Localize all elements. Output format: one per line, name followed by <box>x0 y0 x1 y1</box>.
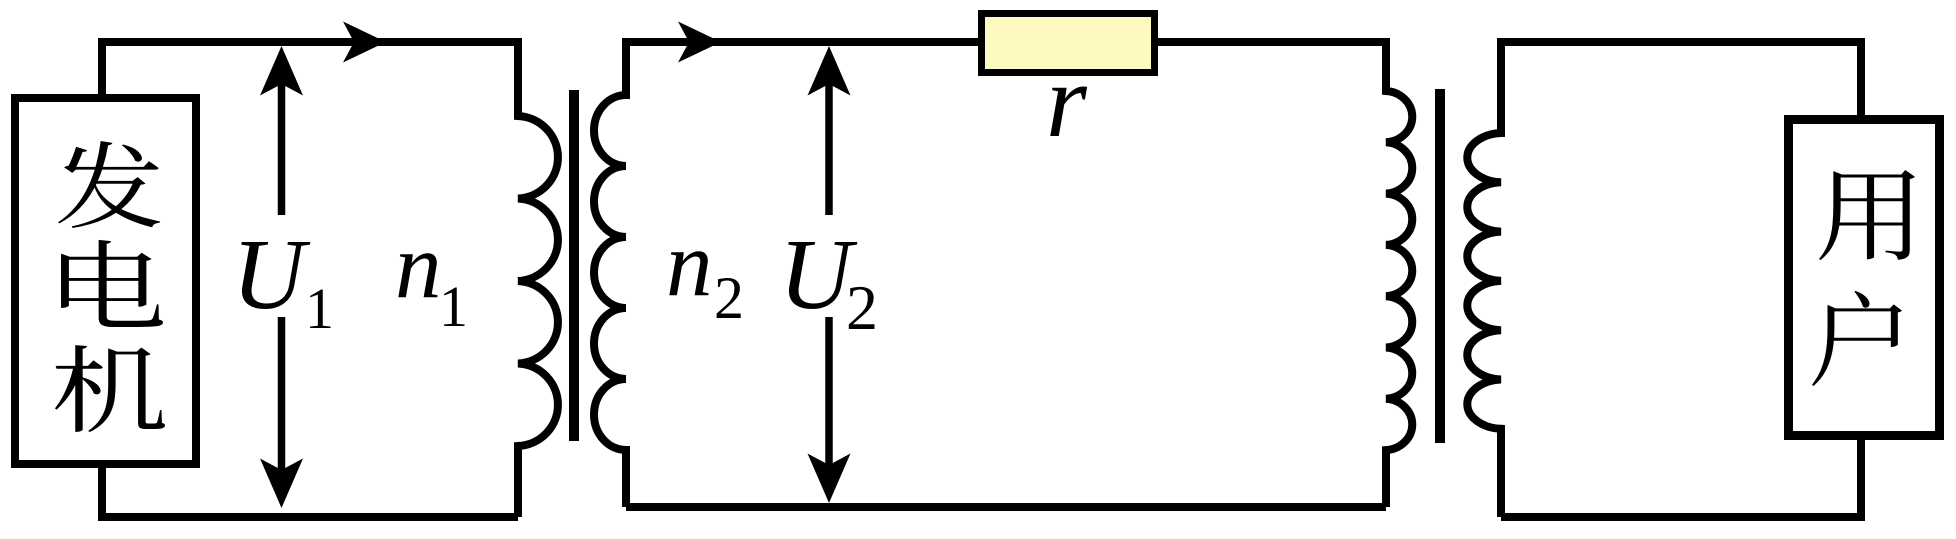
inductor L1 primary n1 winding of transformer T1 <box>518 38 558 517</box>
wire: transmission line top, T1 secondary to resistor r <box>626 38 982 46</box>
generator char 电 <box>61 240 163 327</box>
transformer T1 core <box>569 90 579 441</box>
generator char 机 <box>55 345 165 432</box>
wire: generator top riser + left loop top wire <box>102 42 518 100</box>
wire: user loop bottom riser + bottom wire <box>1501 436 1861 517</box>
inductor L3 primary winding of transformer T2 <box>1386 38 1412 507</box>
current direction arrow, transmission loop <box>678 22 721 63</box>
generator char 发 <box>58 141 160 228</box>
resistor r (line resistance) <box>982 14 1155 73</box>
wire: generator bottom riser + left loop bottom wire <box>102 460 518 517</box>
wire: transmission line bottom <box>626 503 1386 511</box>
inductor L2 secondary n2 winding of transformer T1 <box>594 38 626 507</box>
user char 户 <box>1812 291 1902 386</box>
current direction arrow, primary loop <box>343 22 386 63</box>
generator box 发电机 <box>15 98 196 464</box>
voltage arrow U1 (double-headed) <box>260 46 303 508</box>
inductor L4 secondary winding of transformer T2 <box>1467 38 1501 517</box>
transformer T2 core <box>1435 89 1445 443</box>
user char 用 <box>1819 170 1915 260</box>
user (load) box 用户 <box>1789 120 1940 436</box>
wire: user loop top wire + right riser <box>1501 42 1861 119</box>
voltage arrow U2 (double-headed) <box>808 46 851 503</box>
wire: transmission line top, resistor r to T2 primary <box>1158 38 1386 46</box>
svg-text:r: r <box>1046 42 1088 159</box>
